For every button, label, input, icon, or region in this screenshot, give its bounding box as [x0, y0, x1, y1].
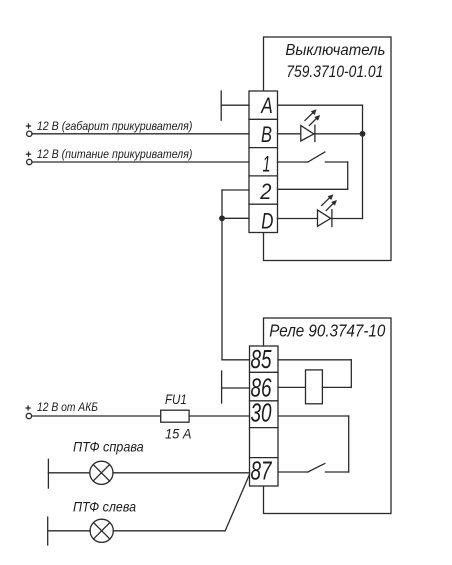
wire 1 right	[278, 161, 308, 163]
wire LED2 to link	[331, 218, 362, 220]
svg-text:15 А: 15 А	[165, 425, 192, 441]
wire AKB to fuse	[32, 415, 161, 417]
connector strip X1 of switch	[249, 91, 278, 233]
svg-text:D: D	[261, 208, 273, 233]
LED HL1	[301, 110, 320, 142]
svg-text:B: B	[261, 122, 272, 147]
terminal +12V AKB	[26, 413, 31, 418]
svg-text:A: A	[260, 93, 273, 118]
relay block box K1	[264, 318, 392, 514]
wire 30 right	[278, 415, 349, 417]
svg-text:Выключатель: Выключатель	[285, 42, 385, 59]
wire 87 right	[278, 471, 308, 473]
terminal +12V gabarit	[27, 131, 32, 136]
chassis terminal left lamp	[47, 517, 49, 545]
wire coil to corner	[322, 386, 351, 388]
wire to left lamp	[48, 530, 90, 532]
wire fuse to pin 30	[189, 415, 249, 417]
wire diagonal to pin 87	[225, 475, 249, 531]
lamp HL right (PTF sprava)	[90, 461, 113, 484]
wire 2 left	[222, 189, 249, 191]
chassis terminal at pin A	[220, 91, 222, 120]
wire D left	[222, 217, 249, 219]
svg-text:87: 87	[251, 456, 273, 486]
wire 86 right	[278, 386, 306, 388]
switch contact blade	[308, 152, 325, 162]
relay coil	[306, 370, 323, 404]
wire LED1 to link	[314, 133, 363, 135]
connector strip X2 of relay	[250, 346, 279, 486]
fuse FU1	[161, 410, 189, 422]
wire return to pin 2	[278, 188, 348, 190]
wire right lamp to pin 87	[113, 472, 250, 474]
svg-text:2: 2	[259, 179, 271, 204]
lamp HL left (PTF sleva)	[90, 519, 113, 542]
wire to right lamp	[48, 472, 89, 474]
LED HL2	[318, 195, 337, 227]
wire B to LED1	[278, 133, 301, 135]
junction node at D	[220, 216, 225, 221]
wire B left	[32, 133, 249, 135]
switch title "Выключатель 759.3710-01.01"	[285, 42, 385, 81]
wire left lamp horizontal	[113, 530, 225, 532]
wire 85 left (from bus)	[222, 359, 250, 361]
switch block box U1	[264, 37, 392, 261]
wire 30 corner down	[348, 416, 350, 472]
terminal +12V pitanie	[27, 159, 32, 164]
svg-text:12 В (габарит прикуривателя): 12 В (габарит прикуривателя)	[37, 119, 193, 133]
svg-text:ПТФ слева: ПТФ слева	[73, 498, 136, 514]
wire 1 left	[32, 161, 249, 163]
svg-text:30: 30	[251, 397, 272, 427]
wire corner down	[347, 162, 349, 189]
wire D to LED2	[278, 218, 318, 220]
junction node at B	[360, 132, 365, 137]
svg-text:12 В (питание прикуривателя): 12 В (питание прикуривателя)	[37, 147, 193, 161]
wire vertical link A-B-D	[362, 105, 364, 218]
wire 85 right	[278, 359, 351, 361]
chassis terminal right lamp	[47, 459, 49, 488]
svg-text:ПТФ справа: ПТФ справа	[73, 438, 144, 454]
svg-text:Реле 90.3747-10: Реле 90.3747-10	[269, 321, 385, 341]
wire A right	[278, 104, 363, 106]
svg-text:FU1: FU1	[165, 392, 187, 407]
wire 85 corner down	[350, 360, 352, 388]
svg-text:12 В от АКБ: 12 В от АКБ	[37, 400, 98, 414]
wire contact to corner	[325, 161, 347, 163]
svg-text:759.3710-01.01: 759.3710-01.01	[286, 62, 383, 81]
wire 86 left	[222, 387, 250, 389]
wire bus vertical to relay	[221, 190, 223, 360]
relay contact blade	[308, 464, 325, 473]
wire contact to corner	[325, 471, 348, 473]
svg-text:1: 1	[263, 151, 271, 176]
chassis terminal at 86	[221, 371, 223, 403]
svg-text:85: 85	[251, 344, 272, 374]
wire A left	[221, 104, 249, 106]
